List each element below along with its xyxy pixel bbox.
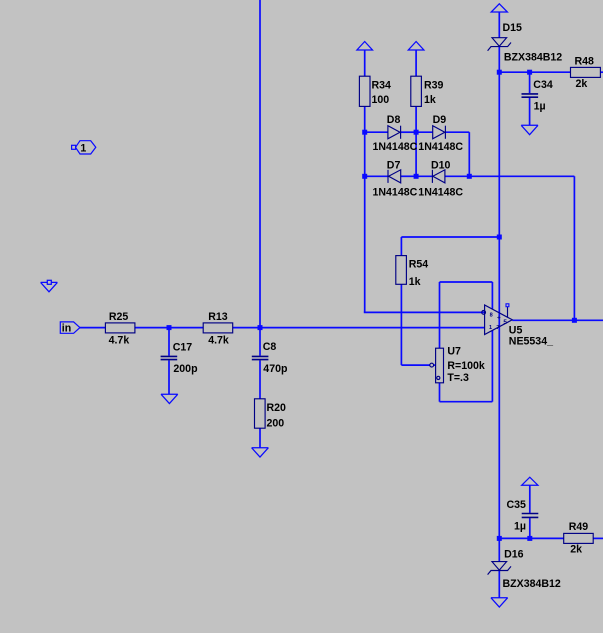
- svg-text:R13: R13: [208, 311, 228, 323]
- capacitor C8: [252, 356, 269, 359]
- wire: diode row2 segments: [365, 175, 388, 177]
- U7 wiper circle: [430, 363, 434, 367]
- svg-text:+: +: [497, 314, 501, 321]
- wire: rail junction right to R48: [499, 71, 570, 73]
- junction at R34/D8 row1: [167, 70, 577, 541]
- junction C35 tap: [527, 536, 532, 541]
- svg-text:T=.3: T=.3: [447, 372, 469, 384]
- wire: V+ arrow down to zener D15: [498, 12, 500, 38]
- svg-text:200: 200: [267, 418, 285, 430]
- svg-text:NE5534_: NE5534_: [509, 335, 553, 347]
- resistor R48: [571, 67, 601, 77]
- junction D7/D10 row2: [414, 174, 419, 179]
- junction V+ rail / R48 row: [497, 70, 502, 75]
- wire: diode row1 segments: [365, 131, 388, 133]
- wire: D15 cathode long vertical rail to D16: [498, 47, 500, 562]
- capacitor C35: [522, 514, 539, 518]
- ground flag below R20: [252, 448, 269, 457]
- wire: box right down to op-amp pin8: [491, 282, 493, 309]
- svg-text:1µ: 1µ: [514, 520, 526, 532]
- wire: C35 bottom to junction: [529, 518, 531, 538]
- potentiometer U7: [430, 348, 444, 383]
- junction C34 tap: [527, 70, 532, 75]
- junction R34 col row2: [362, 174, 367, 179]
- wire: balance box top edge: [440, 281, 493, 283]
- power flag arrow above R39: [408, 42, 424, 51]
- wire: D9 cathode right then down to row2: [446, 131, 470, 133]
- zener diode D15: [488, 38, 511, 51]
- svg-text:4.7k: 4.7k: [109, 335, 130, 347]
- svg-text:R25: R25: [109, 311, 129, 323]
- svg-text:R48: R48: [575, 55, 595, 67]
- power flag arrow above C35: [522, 477, 538, 485]
- diode D7: [388, 170, 401, 183]
- diode D10: [432, 170, 445, 183]
- op-amp U5 triangle: [482, 305, 513, 335]
- wire: C34 junction down to C34: [529, 72, 531, 93]
- svg-text:R20: R20: [267, 402, 287, 414]
- wire: rail junction y=237 left to R54 top: [401, 236, 499, 238]
- op-amp pin5 unconnected square: [506, 304, 509, 307]
- svg-text:470p: 470p: [263, 363, 288, 375]
- resistor R25: [105, 323, 134, 333]
- wire: top arrow to R34: [364, 50, 366, 76]
- svg-text:7: 7: [496, 325, 499, 331]
- svg-text:1N4148C: 1N4148C: [418, 187, 463, 199]
- diode D8: [388, 126, 401, 139]
- wire: row1 to row2 link x=416.1: [415, 132, 417, 176]
- svg-text:D16: D16: [504, 548, 524, 560]
- resistor R49: [564, 533, 594, 543]
- svg-text:1: 1: [80, 142, 86, 154]
- resistor R34: [359, 76, 370, 106]
- U7 ccw terminal circle: [437, 376, 440, 379]
- wire: D16 bottom to ground: [498, 571, 500, 598]
- wire: U7 top pin up to balance box top: [439, 282, 441, 348]
- svg-text:D9: D9: [433, 114, 447, 126]
- capacitor C17: [161, 356, 178, 359]
- svg-text:R39: R39: [424, 80, 444, 92]
- wire: U7 bottom pin down: [439, 383, 441, 402]
- resistor R20: [255, 399, 266, 428]
- zener diode D16: [488, 562, 511, 575]
- ground flag below D16: [491, 598, 508, 607]
- junction V+ rail / R54 row: [497, 235, 502, 240]
- svg-text:1µ: 1µ: [534, 100, 546, 112]
- wire: R13 to op-amp inverting input (bottom) long run: [233, 327, 485, 329]
- wire: wiper row right to U7 wiper circle: [401, 364, 430, 366]
- wire: diode row1 junction down to row2 junction x=364.7: [364, 132, 366, 176]
- svg-text:R49: R49: [569, 521, 589, 533]
- ground flag below C34: [521, 125, 538, 134]
- svg-text:1k: 1k: [409, 276, 421, 288]
- svg-text:200p: 200p: [173, 363, 198, 375]
- power flag arrow above R34: [41, 4, 538, 607]
- junction D8/D9 row1: [414, 130, 419, 135]
- wire: bottom rail junction right to R49: [499, 537, 563, 539]
- junction C17 tap: [167, 325, 172, 330]
- svg-text:1k: 1k: [424, 94, 436, 106]
- svg-text:D8: D8: [387, 114, 401, 126]
- svg-text:D7: D7: [387, 160, 401, 172]
- wire: row2 right end down to output node: [573, 176, 575, 320]
- wire: row2 junction down then right to op-amp + input: [364, 176, 366, 312]
- wire: top arrow 2 to R39: [415, 50, 417, 76]
- svg-text:C35: C35: [507, 499, 527, 511]
- svg-text:1N4148C: 1N4148C: [418, 141, 463, 153]
- svg-text:R34: R34: [372, 80, 392, 92]
- svg-text:R=100k: R=100k: [447, 360, 485, 372]
- svg-text:4.7k: 4.7k: [208, 335, 229, 347]
- diode D9: [433, 126, 446, 139]
- svg-text:1: 1: [489, 325, 492, 331]
- wire: R48 right to edge: [600, 71, 603, 73]
- op-amp non-inverting input circle: [482, 311, 486, 315]
- svg-text:BZX384B12: BZX384B12: [503, 578, 561, 590]
- junction bottom rail / D16: [497, 536, 502, 541]
- wire: R25 to R13 through junction at x=169: [135, 327, 204, 329]
- svg-text:D15: D15: [503, 22, 523, 34]
- op-amp pin5 comp stub: [507, 307, 509, 317]
- svg-text:5: 5: [503, 319, 507, 326]
- svg-text:BZX384B12: BZX384B12: [504, 51, 562, 63]
- wire: C34 bottom to ground: [529, 98, 531, 125]
- svg-text:2k: 2k: [570, 544, 582, 556]
- junction output node: [572, 318, 577, 323]
- wire: C17 bottom to ground: [168, 360, 170, 394]
- power flag arrow above D15: [491, 4, 507, 12]
- svg-text:C34: C34: [533, 79, 553, 91]
- wire: op-amp output to right edge: [512, 319, 603, 321]
- wire: R39 bottom to diode row1: [415, 106, 417, 132]
- wire: R49 right to edge: [593, 537, 603, 539]
- node flag "in" pentagon: [60, 322, 80, 333]
- wire: C8 bottom to R20 top: [259, 360, 261, 398]
- wire: in flag to R25: [80, 327, 106, 329]
- wire: R20 bottom to ground: [259, 428, 261, 447]
- resistor R54: [396, 256, 407, 285]
- resistor R39: [411, 76, 422, 106]
- svg-text:1N4148C: 1N4148C: [373, 187, 418, 199]
- svg-text:1N4148C: 1N4148C: [373, 141, 418, 153]
- svg-text:100: 100: [372, 94, 390, 106]
- svg-text:C8: C8: [263, 341, 277, 353]
- unconnected pin square on floating ground: [47, 280, 51, 284]
- svg-text:C17: C17: [173, 342, 193, 354]
- junction row2 right corner: [467, 174, 472, 179]
- svg-text:2k: 2k: [576, 78, 588, 90]
- junction input node column: [258, 325, 263, 330]
- resistor R13: [203, 323, 233, 333]
- wire: R54 bottom down to wiper row: [400, 284, 402, 365]
- wire: junction x=169 down to C17: [168, 328, 170, 356]
- floating ground flag top-left: [41, 282, 58, 291]
- ground flag below C17: [161, 394, 178, 403]
- svg-text:8: 8: [490, 312, 493, 318]
- capacitor C34: [522, 94, 539, 97]
- svg-text:R54: R54: [409, 259, 429, 271]
- wire: balance box bottom edge: [440, 401, 493, 403]
- wire: box right up to op-amp pin1: [491, 330, 493, 401]
- svg-text:U7: U7: [447, 345, 461, 357]
- wire: R34 bottom to diode row 1: [364, 106, 366, 132]
- svg-text:in: in: [62, 322, 71, 334]
- node flag "1" hexagon: [72, 141, 96, 154]
- wire: bottom arrow down to C35: [529, 485, 531, 513]
- svg-text:D10: D10: [431, 160, 451, 172]
